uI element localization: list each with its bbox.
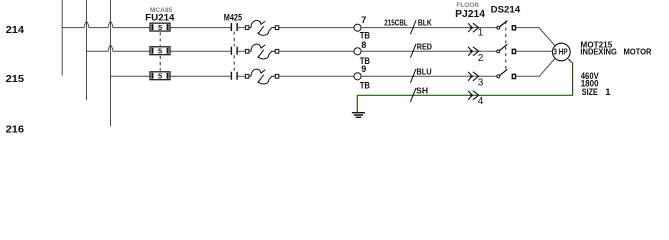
svg-text:DS214: DS214: [491, 5, 521, 16]
svg-text:BLU: BLU: [416, 66, 431, 76]
svg-text:M425: M425: [224, 13, 243, 24]
svg-text:5: 5: [158, 72, 162, 81]
svg-text:214: 214: [6, 25, 25, 36]
svg-text:SIZE: SIZE: [582, 86, 598, 97]
svg-text:BLK: BLK: [418, 18, 432, 28]
svg-text:215: 215: [6, 74, 25, 85]
svg-text:MOTOR: MOTOR: [624, 46, 652, 56]
svg-text:SH: SH: [416, 85, 428, 95]
svg-text:7: 7: [361, 15, 366, 25]
svg-text:RED: RED: [417, 41, 432, 51]
svg-text:216: 216: [6, 124, 25, 135]
svg-text:2: 2: [478, 53, 484, 64]
svg-text:3 HP: 3 HP: [553, 48, 567, 57]
svg-text:TB: TB: [360, 30, 370, 40]
svg-text:4: 4: [478, 96, 484, 107]
svg-text:1: 1: [605, 86, 610, 97]
svg-text:3: 3: [478, 78, 484, 89]
svg-text:215CBL: 215CBL: [384, 18, 407, 28]
svg-text:5: 5: [158, 47, 162, 56]
svg-text:FLOOR: FLOOR: [457, 2, 480, 9]
svg-text:1: 1: [478, 28, 484, 39]
svg-text:PJ214: PJ214: [455, 9, 485, 20]
svg-text:TB: TB: [360, 56, 370, 66]
svg-text:FU214: FU214: [145, 13, 175, 24]
svg-text:8: 8: [361, 40, 366, 50]
svg-text:TB: TB: [360, 80, 370, 90]
svg-text:INDEXING: INDEXING: [580, 46, 617, 56]
svg-text:5: 5: [158, 23, 162, 32]
